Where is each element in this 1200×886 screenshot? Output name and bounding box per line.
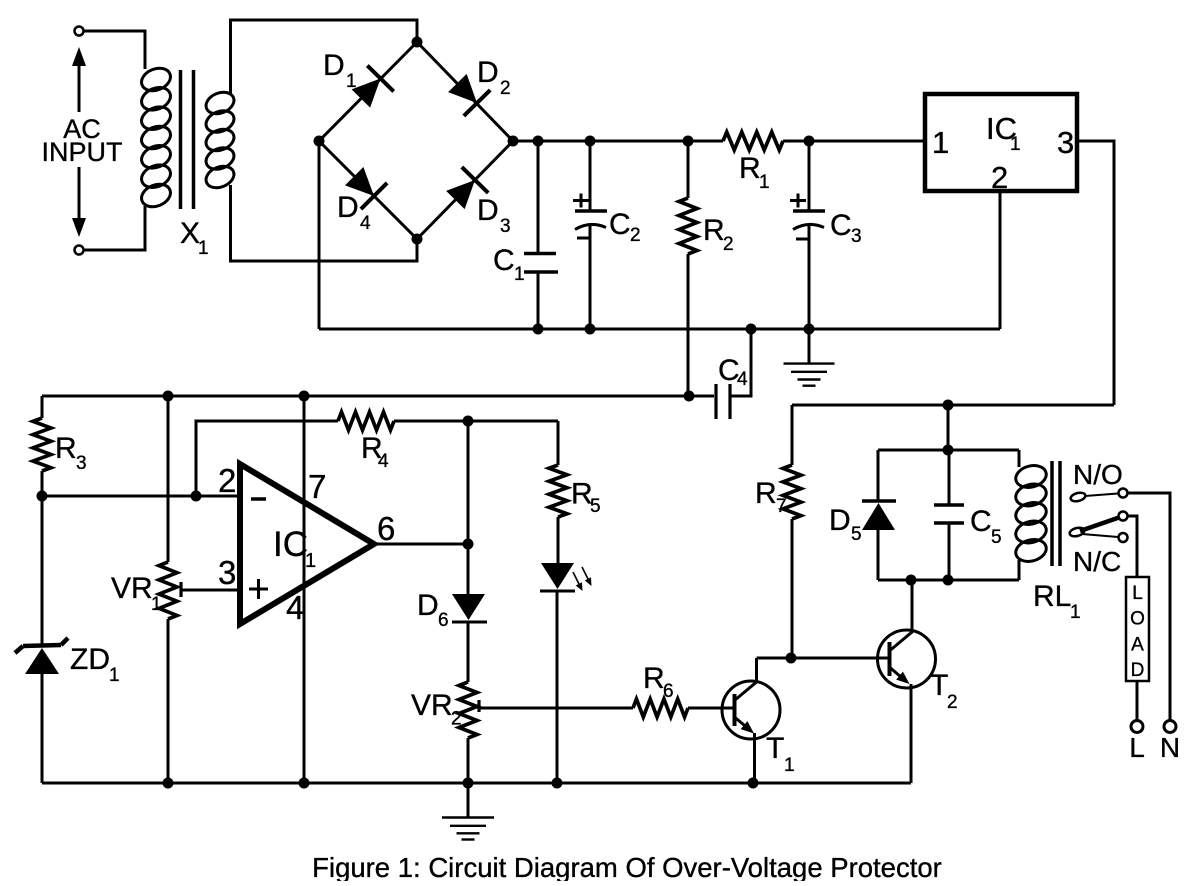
svg-text:N/C: N/C: [1073, 546, 1121, 577]
svg-text:5: 5: [991, 527, 1002, 548]
svg-text:2: 2: [451, 709, 462, 730]
svg-text:D: D: [477, 56, 499, 89]
svg-text:INPUT: INPUT: [42, 137, 123, 167]
svg-text:3: 3: [500, 216, 511, 237]
svg-text:L: L: [1129, 732, 1145, 763]
svg-text:1: 1: [1070, 602, 1081, 623]
svg-text:R: R: [55, 432, 77, 465]
svg-text:7: 7: [776, 496, 787, 517]
svg-text:1: 1: [784, 755, 795, 776]
svg-text:N/O: N/O: [1073, 459, 1123, 490]
svg-text:L: L: [1132, 583, 1143, 604]
svg-text:3: 3: [76, 453, 87, 474]
svg-text:3: 3: [1057, 125, 1074, 160]
svg-text:D: D: [337, 191, 359, 224]
svg-text:2: 2: [991, 160, 1008, 195]
svg-text:D: D: [477, 194, 499, 227]
svg-text:O: O: [1130, 609, 1145, 630]
svg-text:1: 1: [932, 125, 949, 160]
svg-text:2: 2: [947, 692, 958, 713]
svg-text:D: D: [829, 504, 851, 537]
svg-text:D: D: [417, 589, 439, 622]
svg-text:C: C: [493, 244, 515, 277]
svg-text:IC: IC: [273, 525, 308, 564]
svg-text:2: 2: [218, 462, 236, 499]
svg-text:4: 4: [286, 589, 304, 626]
svg-text:4: 4: [360, 213, 371, 234]
svg-text:2: 2: [630, 225, 641, 246]
svg-text:T: T: [766, 732, 784, 765]
svg-text:D: D: [323, 49, 345, 82]
svg-text:RL: RL: [1033, 580, 1071, 613]
svg-text:5: 5: [590, 496, 601, 517]
svg-text:VR: VR: [411, 689, 453, 722]
svg-text:VR: VR: [111, 572, 153, 605]
svg-text:4: 4: [737, 369, 748, 390]
svg-text:1: 1: [305, 550, 316, 572]
svg-text:ZD: ZD: [70, 643, 110, 676]
svg-text:1: 1: [346, 71, 357, 92]
svg-text:C: C: [970, 505, 992, 538]
svg-text:2: 2: [723, 234, 734, 255]
svg-text:1: 1: [759, 172, 770, 193]
svg-text:1: 1: [514, 264, 525, 285]
svg-text:3: 3: [851, 226, 862, 247]
svg-text:D: D: [1131, 660, 1145, 681]
svg-text:6: 6: [438, 610, 449, 631]
svg-text:1: 1: [151, 594, 162, 615]
svg-text:Figure 1: Circuit Diagram Of O: Figure 1: Circuit Diagram Of Over-Voltag…: [312, 852, 942, 881]
svg-text:T: T: [930, 669, 948, 702]
svg-text:C: C: [609, 208, 631, 241]
svg-text:5: 5: [851, 524, 862, 545]
svg-text:N: N: [1160, 732, 1180, 763]
svg-text:4: 4: [378, 451, 389, 472]
svg-text:2: 2: [500, 78, 511, 99]
svg-text:6: 6: [663, 681, 674, 702]
svg-text:1: 1: [198, 238, 209, 259]
svg-text:R: R: [643, 662, 665, 695]
svg-text:R: R: [755, 477, 777, 510]
svg-text:7: 7: [308, 468, 326, 505]
svg-text:X: X: [180, 217, 200, 250]
svg-text:1: 1: [1010, 134, 1021, 155]
svg-text:R: R: [739, 152, 761, 185]
svg-text:A: A: [1131, 634, 1144, 655]
svg-text:R: R: [703, 214, 725, 247]
svg-text:C: C: [830, 209, 852, 242]
svg-text:6: 6: [377, 510, 395, 547]
svg-text:1: 1: [109, 665, 120, 686]
svg-text:3: 3: [218, 554, 236, 591]
